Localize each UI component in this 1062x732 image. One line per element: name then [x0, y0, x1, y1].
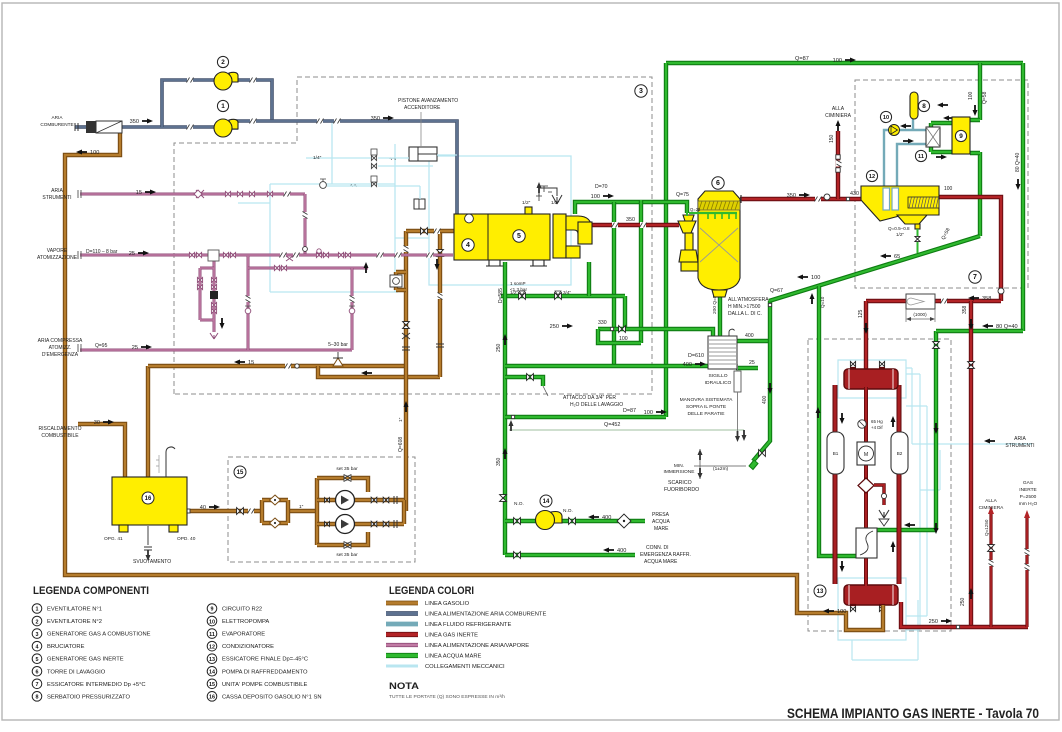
- svg-text:TORRE DI LAVAGGIO: TORRE DI LAVAGGIO: [47, 669, 106, 675]
- svg-text:LINEA GASOLIO: LINEA GASOLIO: [425, 601, 470, 607]
- svg-text:MARE: MARE: [654, 526, 669, 532]
- svg-text:GENERATORE GAS INERTE: GENERATORE GAS INERTE: [47, 657, 124, 663]
- svg-text:EVAPORATORE: EVAPORATORE: [222, 632, 265, 638]
- svg-text:9: 9: [211, 607, 214, 613]
- svg-text:400: 400: [745, 333, 754, 339]
- svg-text:Q=58: Q=58: [982, 91, 988, 104]
- svg-text:VAPORE: VAPORE: [47, 248, 68, 254]
- svg-text:13: 13: [209, 657, 215, 663]
- svg-text:LEGENDA COMPONENTI: LEGENDA COMPONENTI: [33, 585, 149, 597]
- svg-text:D=110 – 8 bar: D=110 – 8 bar: [86, 249, 118, 255]
- svg-text:set 35 bar: set 35 bar: [336, 552, 358, 558]
- svg-text:4: 4: [36, 644, 39, 650]
- svg-text:SVUOTAMENTO: SVUOTAMENTO: [133, 559, 171, 565]
- svg-text:N.O.: N.O.: [514, 501, 524, 507]
- svg-text:10: 10: [209, 619, 215, 625]
- svg-text:30: 30: [94, 420, 100, 426]
- svg-text:1/2″: 1/2″: [551, 200, 560, 206]
- svg-text:100: 100: [619, 336, 628, 342]
- svg-text:B2: B2: [897, 451, 903, 456]
- svg-text:14: 14: [543, 499, 550, 505]
- svg-text:N.O.: N.O.: [563, 508, 573, 514]
- svg-text:ALLA: ALLA: [985, 498, 998, 504]
- svg-text:UNITA' POMPE COMBUSTIBILE: UNITA' POMPE COMBUSTIBILE: [222, 682, 308, 688]
- svg-text:25: 25: [749, 360, 755, 366]
- svg-text:350: 350: [371, 116, 380, 122]
- svg-text:Q=75: Q=75: [676, 192, 689, 198]
- svg-text:1″: 1″: [398, 417, 404, 422]
- svg-text:D=70: D=70: [595, 184, 608, 190]
- svg-text:SCHEMA IMPIANTO GAS INERTE - T: SCHEMA IMPIANTO GAS INERTE - Tavola 70: [787, 705, 1039, 721]
- svg-text:FUORIBORDO: FUORIBORDO: [664, 487, 699, 493]
- svg-text:ARIA: ARIA: [52, 115, 64, 120]
- svg-text:4: 4: [466, 242, 470, 249]
- svg-text:ARIA COMPRESSA: ARIA COMPRESSA: [38, 338, 83, 344]
- svg-text:7: 7: [36, 682, 39, 688]
- svg-text:P=2500: P=2500: [1020, 494, 1037, 500]
- svg-text:3/4″: 3/4″: [563, 290, 571, 295]
- svg-text:350: 350: [626, 217, 635, 223]
- svg-text:1/2″: 1/2″: [522, 200, 531, 206]
- svg-text:CASSA DEPOSITO GASOLIO N°1 SN: CASSA DEPOSITO GASOLIO N°1 SN: [222, 694, 322, 700]
- svg-text:Q=95: Q=95: [95, 343, 108, 349]
- svg-text:M: M: [864, 452, 868, 458]
- svg-text:SCARICO: SCARICO: [668, 480, 692, 486]
- svg-text:B1: B1: [833, 451, 839, 456]
- svg-text:25: 25: [132, 345, 138, 351]
- svg-text:CONN. DI: CONN. DI: [646, 545, 669, 551]
- svg-text:15: 15: [237, 470, 244, 476]
- svg-text:2: 2: [221, 59, 225, 66]
- svg-text:ACQUA MARE: ACQUA MARE: [644, 559, 678, 565]
- svg-text:80 Q=40: 80 Q=40: [996, 324, 1018, 330]
- svg-text:358: 358: [962, 305, 968, 314]
- svg-text:LINEA ACQUA MARE: LINEA ACQUA MARE: [425, 654, 482, 660]
- svg-text:5–30 bar: 5–30 bar: [328, 342, 348, 348]
- svg-text:150: 150: [829, 134, 835, 143]
- svg-text:INERTE: INERTE: [1019, 487, 1037, 493]
- svg-text:ARIA: ARIA: [1014, 436, 1026, 442]
- svg-text:ARIA: ARIA: [51, 188, 63, 194]
- svg-text:12: 12: [209, 644, 215, 650]
- svg-text:ALL'ATMOSFERA: ALL'ATMOSFERA: [728, 297, 769, 303]
- svg-text:PISTONE AVANZAMENTO: PISTONE AVANZAMENTO: [398, 98, 458, 104]
- svg-text:400: 400: [617, 548, 626, 554]
- svg-text:+4 Dif: +4 Dif: [871, 425, 883, 430]
- svg-text:100: 100: [90, 150, 99, 156]
- svg-text:65 Hg: 65 Hg: [871, 419, 883, 424]
- svg-text:250: 250: [960, 597, 966, 606]
- svg-text:ACCENDITORE: ACCENDITORE: [404, 105, 441, 111]
- svg-text:5: 5: [36, 657, 39, 663]
- svg-text:80 Q=40: 80 Q=40: [1015, 152, 1021, 172]
- svg-text:100: 100: [833, 58, 842, 64]
- svg-text:400: 400: [683, 362, 692, 368]
- svg-text:D=585: D=585: [498, 288, 504, 303]
- svg-text:16: 16: [145, 496, 152, 502]
- svg-text:LINEA ALIMENTAZIONE ARIA COMBU: LINEA ALIMENTAZIONE ARIA COMBURENTE: [425, 612, 546, 618]
- svg-text:H₂O DELLE LAVAGGIO: H₂O DELLE LAVAGGIO: [570, 402, 623, 408]
- svg-text:1: 1: [36, 607, 39, 613]
- svg-text:2: 2: [36, 619, 39, 625]
- svg-text:400: 400: [602, 515, 611, 521]
- svg-text:5: 5: [517, 233, 521, 240]
- svg-text:RISCALDAMENTO: RISCALDAMENTO: [39, 426, 82, 432]
- svg-text:6: 6: [36, 669, 39, 675]
- svg-text:ACQUA: ACQUA: [652, 519, 670, 525]
- svg-text:ATTACCO DA 3/4″ PER: ATTACCO DA 3/4″ PER: [563, 395, 616, 401]
- svg-text:400: 400: [762, 395, 768, 404]
- svg-text:BRUCIATORE: BRUCIATORE: [47, 644, 85, 650]
- svg-text:ELETTROPOMPA: ELETTROPOMPA: [222, 619, 269, 625]
- svg-text:9: 9: [959, 133, 963, 140]
- svg-text:IMMERSIONE: IMMERSIONE: [664, 469, 695, 475]
- svg-text:1 somP: 1 somP: [510, 281, 526, 286]
- svg-text:125: 125: [858, 309, 864, 318]
- svg-text:mm H₂O: mm H₂O: [1019, 501, 1038, 507]
- svg-text:DELLE PARATIE: DELLE PARATIE: [687, 411, 725, 417]
- svg-text:EMERGENZA RAFFR.: EMERGENZA RAFFR.: [640, 552, 691, 558]
- svg-text:COMBURENTE: COMBURENTE: [40, 122, 73, 127]
- svg-text:set 35 bar: set 35 bar: [336, 466, 358, 472]
- svg-text:250: 250: [550, 324, 559, 330]
- svg-text:358: 358: [982, 296, 991, 302]
- svg-text:Q=10: Q=10: [820, 296, 825, 308]
- svg-text:ESSICATORE INTERMEDIO Dp +5°C: ESSICATORE INTERMEDIO Dp +5°C: [47, 682, 146, 688]
- svg-text:LINEA FLUIDO REFRIGERANTE: LINEA FLUIDO REFRIGERANTE: [425, 622, 511, 628]
- svg-text:65: 65: [894, 254, 900, 260]
- svg-text:12: 12: [869, 174, 875, 180]
- svg-text:D=610: D=610: [688, 353, 704, 359]
- svg-text:TUTTE LE PORTATE (Q) SONO ESPR: TUTTE LE PORTATE (Q) SONO ESPRESSE IN m³…: [389, 694, 505, 700]
- svg-text:100: 100: [811, 275, 820, 281]
- svg-text:Q=608: Q=608: [398, 437, 404, 452]
- svg-text:STRUMENTI: STRUMENTI: [1005, 443, 1034, 449]
- svg-text:SERBATOIO PRESSURIZZATO: SERBATOIO PRESSURIZZATO: [47, 694, 130, 700]
- svg-text:ATOMIZZAZIONE: ATOMIZZAZIONE: [37, 255, 78, 261]
- svg-text:15: 15: [136, 190, 142, 196]
- svg-text:(1±2m): (1±2m): [713, 466, 729, 472]
- svg-text:25: 25: [129, 251, 135, 257]
- svg-text:250: 250: [929, 619, 938, 625]
- svg-text:MANOVRA SISTEMATA: MANOVRA SISTEMATA: [680, 397, 734, 403]
- svg-text:100: 100: [591, 194, 600, 200]
- svg-text:D'EMERGENZA: D'EMERGENZA: [42, 352, 79, 358]
- svg-text:1/2″: 1/2″: [510, 290, 518, 295]
- svg-text:OPD. 40: OPD. 40: [177, 536, 196, 542]
- svg-text:D=87: D=87: [623, 408, 636, 414]
- svg-text:430: 430: [850, 191, 859, 197]
- svg-text:3: 3: [36, 632, 39, 638]
- svg-text:GAS: GAS: [1023, 480, 1033, 486]
- svg-text:CIMINIERA: CIMINIERA: [979, 505, 1005, 511]
- svg-text:1″: 1″: [299, 504, 304, 510]
- svg-text:15: 15: [209, 682, 215, 688]
- svg-text:10: 10: [883, 115, 889, 121]
- svg-text:250: 250: [496, 343, 502, 352]
- svg-text:40: 40: [200, 505, 206, 511]
- svg-text:LINEA ALIMENTAZIONE ARIA/VAPOR: LINEA ALIMENTAZIONE ARIA/VAPORE: [425, 643, 529, 649]
- svg-text:1: 1: [221, 103, 225, 110]
- svg-text:100: 100: [644, 410, 653, 416]
- svg-text:EVENTILATORE N°2: EVENTILATORE N°2: [47, 619, 102, 625]
- svg-text:LEGENDA COLORI: LEGENDA COLORI: [389, 585, 474, 597]
- svg-text:ATOMIZZ.: ATOMIZZ.: [49, 345, 72, 351]
- svg-text:Q=87: Q=87: [795, 56, 809, 62]
- svg-text:Q=67: Q=67: [770, 288, 783, 294]
- svg-text:GENERATORE GAS A COMBUSTIONE: GENERATORE GAS A COMBUSTIONE: [47, 632, 151, 638]
- svg-text:11: 11: [209, 632, 215, 638]
- svg-text:8: 8: [36, 695, 39, 701]
- svg-text:COLLEGAMENTI MECCANICI: COLLEGAMENTI MECCANICI: [425, 664, 505, 670]
- svg-text:POMPA DI RAFFREDDAMENTO: POMPA DI RAFFREDDAMENTO: [222, 669, 308, 675]
- svg-text:350: 350: [496, 457, 502, 466]
- svg-text:SOPRA IL PONTE: SOPRA IL PONTE: [686, 404, 727, 410]
- svg-text:CIRCUITO R22: CIRCUITO R22: [222, 607, 262, 613]
- svg-text:6: 6: [716, 180, 720, 187]
- svg-text:1/4″: 1/4″: [313, 155, 322, 161]
- svg-text:350: 350: [787, 193, 796, 199]
- svg-text:H MIN.>17500: H MIN.>17500: [728, 304, 761, 310]
- svg-text:15: 15: [248, 360, 254, 366]
- svg-text:CONDIZIONATORE: CONDIZIONATORE: [222, 644, 274, 650]
- svg-text:13: 13: [817, 589, 824, 595]
- svg-text:16: 16: [209, 695, 215, 701]
- svg-text:CIMINIERA: CIMINIERA: [825, 113, 852, 119]
- svg-text:SIGILLO: SIGILLO: [708, 373, 727, 379]
- svg-text:14: 14: [209, 669, 215, 675]
- svg-text:100: 100: [944, 186, 953, 192]
- svg-text:330: 330: [598, 320, 607, 326]
- svg-text:1/2″: 1/2″: [896, 232, 904, 237]
- svg-text:ESSICATORE FINALE Dp=-45°C: ESSICATORE FINALE Dp=-45°C: [222, 657, 308, 663]
- svg-text:Q=452: Q=452: [604, 422, 620, 428]
- svg-text:8: 8: [922, 103, 926, 110]
- svg-text:OPG. 41: OPG. 41: [104, 536, 123, 542]
- svg-text:350: 350: [130, 119, 139, 125]
- svg-text:Q=1250: Q=1250: [984, 519, 989, 536]
- svg-text:100: 100: [968, 91, 974, 100]
- svg-text:ALLA: ALLA: [832, 106, 845, 112]
- svg-text:EVENTILATORE N°1: EVENTILATORE N°1: [47, 607, 102, 613]
- svg-text:Q=25: Q=25: [690, 207, 701, 212]
- svg-text:(1000): (1000): [913, 312, 927, 317]
- svg-text:DALLA L. DI C.: DALLA L. DI C.: [728, 311, 762, 317]
- svg-text:IDRAULICO: IDRAULICO: [705, 380, 732, 386]
- svg-text:MIN.: MIN.: [674, 463, 684, 469]
- svg-text:Q=0.5–0.8: Q=0.5–0.8: [888, 226, 910, 231]
- svg-text:11: 11: [918, 154, 924, 160]
- svg-text:7: 7: [973, 274, 977, 281]
- svg-text:100: 100: [837, 609, 846, 615]
- svg-text:COMBUSTIBILE: COMBUSTIBILE: [41, 433, 79, 439]
- svg-text:PRESA: PRESA: [652, 512, 670, 518]
- svg-text:STRUMENTI: STRUMENTI: [42, 195, 71, 201]
- svg-text:NOTA: NOTA: [389, 681, 420, 691]
- svg-text:3: 3: [639, 88, 643, 95]
- svg-text:LINEA GAS INERTE: LINEA GAS INERTE: [425, 633, 478, 639]
